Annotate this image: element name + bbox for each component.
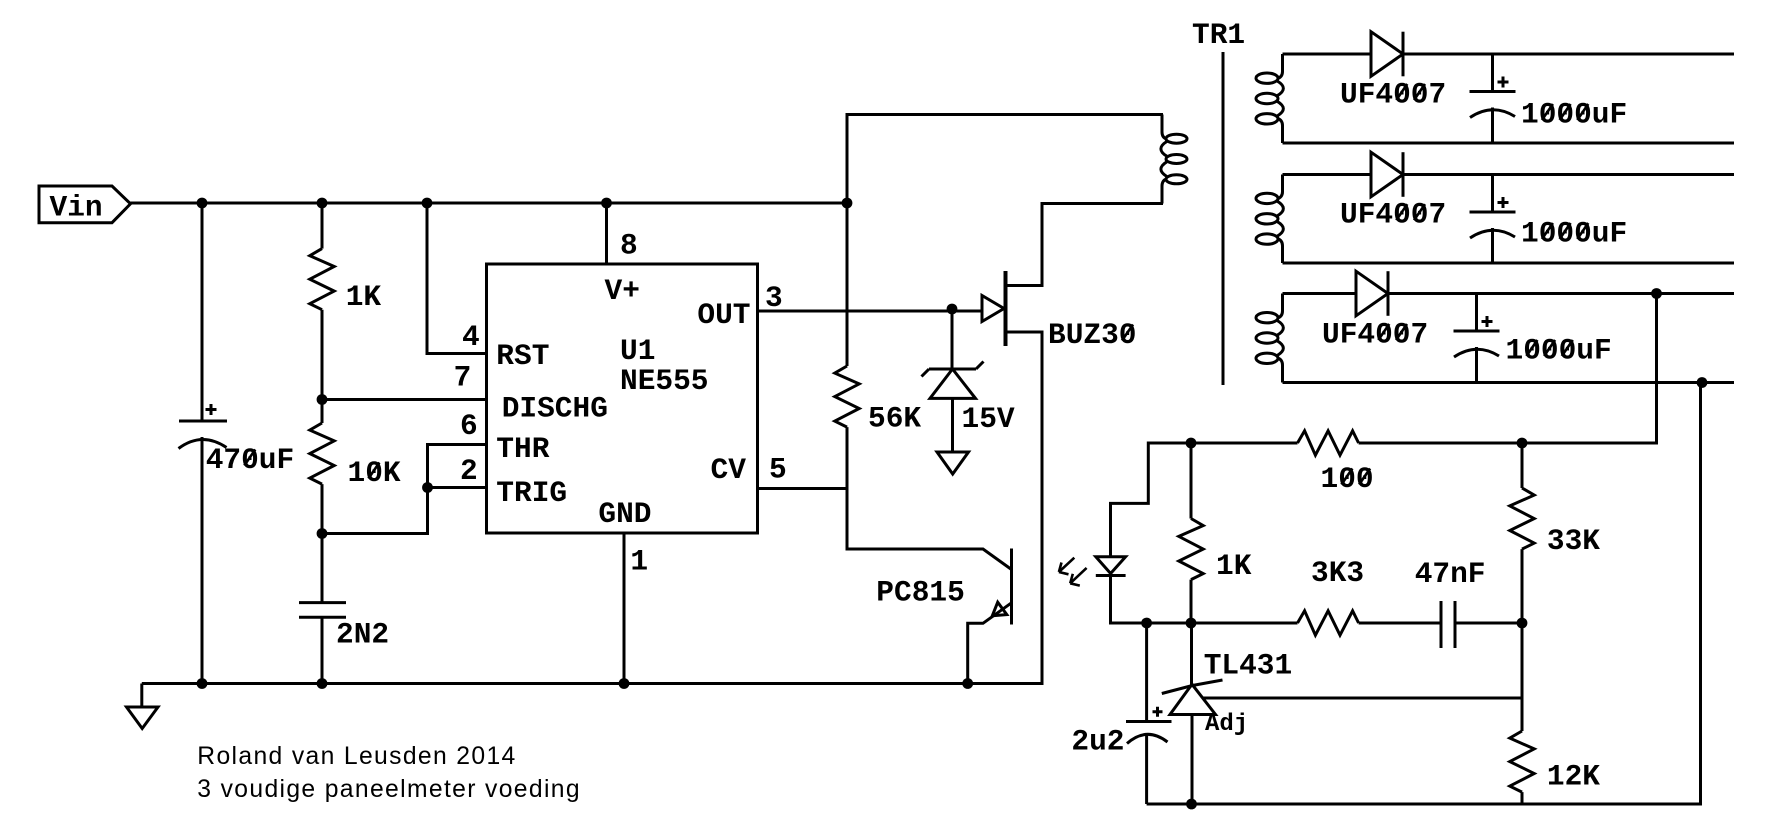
svg-text:PC815: PC815 — [876, 576, 965, 610]
svg-text:2N2: 2N2 — [336, 618, 389, 652]
svg-text:1K: 1K — [1216, 549, 1252, 583]
svg-text:33K: 33K — [1547, 524, 1600, 558]
svg-text:6: 6 — [460, 409, 478, 443]
svg-text:3: 3 — [765, 281, 783, 315]
svg-text:TL431: TL431 — [1204, 649, 1293, 683]
svg-text:NE555: NE555 — [620, 364, 709, 398]
svg-text:UF4007: UF4007 — [1340, 78, 1446, 112]
svg-text:OUT: OUT — [697, 298, 750, 332]
svg-text:V+: V+ — [605, 274, 640, 308]
svg-text:GND: GND — [598, 497, 651, 531]
svg-text:TR1: TR1 — [1192, 18, 1245, 52]
svg-text:12K: 12K — [1547, 760, 1600, 794]
svg-text:U1: U1 — [620, 334, 655, 368]
svg-text:UF4007: UF4007 — [1322, 318, 1428, 352]
svg-text:4: 4 — [462, 320, 480, 354]
svg-text:47nF: 47nF — [1415, 557, 1486, 591]
svg-text:1K: 1K — [346, 280, 382, 314]
svg-text:10K: 10K — [348, 456, 401, 490]
svg-text:56K: 56K — [868, 402, 921, 436]
svg-text:8: 8 — [620, 229, 638, 263]
svg-text:7: 7 — [454, 361, 472, 395]
svg-text:TRIG: TRIG — [496, 476, 567, 510]
svg-text:RST: RST — [496, 339, 549, 373]
svg-text:5: 5 — [769, 453, 787, 487]
svg-text:THR: THR — [496, 432, 549, 466]
svg-text:2u2: 2u2 — [1071, 725, 1124, 759]
svg-text:BUZ30: BUZ30 — [1048, 318, 1137, 352]
svg-text:UF4007: UF4007 — [1340, 198, 1446, 232]
svg-text:CV: CV — [711, 453, 747, 487]
svg-text:470uF: 470uF — [206, 443, 295, 477]
svg-text:1000uF: 1000uF — [1506, 334, 1612, 368]
svg-text:Adj: Adj — [1205, 711, 1248, 738]
svg-text:Roland van Leusden 2014: Roland van Leusden 2014 — [197, 743, 516, 770]
svg-text:100: 100 — [1321, 462, 1374, 496]
svg-text:1000uF: 1000uF — [1521, 98, 1627, 132]
svg-text:Vin: Vin — [50, 191, 103, 225]
svg-text:2: 2 — [460, 454, 478, 488]
svg-text:1000uF: 1000uF — [1521, 217, 1627, 251]
svg-text:3K3: 3K3 — [1311, 556, 1364, 590]
svg-text:3 voudige paneelmeter voeding: 3 voudige paneelmeter voeding — [197, 776, 581, 803]
svg-text:DISCHG: DISCHG — [502, 392, 608, 426]
svg-text:15V: 15V — [962, 402, 1015, 436]
svg-text:1: 1 — [630, 545, 648, 579]
